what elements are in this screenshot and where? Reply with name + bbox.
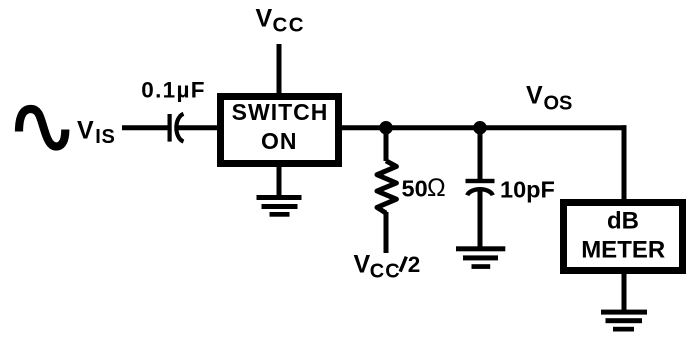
value label 50Ω: [402, 174, 446, 202]
wire: node to capacitor C2: [478, 130, 483, 180]
svg-text:V: V: [526, 82, 543, 110]
wire: capacitor C2 to ground: [478, 190, 483, 247]
power label VCC: [256, 5, 306, 37]
ground (capacitor C2): [456, 246, 505, 269]
AC source (sine symbol): [19, 109, 65, 147]
svg-text:dB: dB: [607, 208, 639, 235]
svg-text:2: 2: [408, 252, 421, 277]
wire: VCC stub: [277, 44, 282, 96]
svg-text:ON: ON: [261, 128, 298, 154]
node junction (capacitor tap): [473, 121, 487, 135]
dB meter block: [564, 203, 683, 271]
svg-text:CC: CC: [370, 261, 401, 283]
node label VIS: [77, 117, 116, 149]
node junction (resistor tap): [379, 121, 393, 135]
wire: main output net from switch to dB meter: [342, 125, 627, 202]
wire: resistor R1 to VCC/2: [384, 212, 389, 253]
wire: dB meter to ground: [622, 270, 627, 312]
svg-text:Ω: Ω: [427, 174, 446, 202]
capacitor C2: [466, 179, 495, 196]
wire: node to resistor R1: [384, 130, 389, 161]
svg-text:50: 50: [402, 175, 428, 201]
svg-text:CC: CC: [273, 14, 306, 37]
ground (switch): [257, 195, 302, 217]
wire: switch to ground: [277, 163, 282, 198]
svg-text:0.1µF: 0.1µF: [141, 78, 206, 103]
wire: capacitor C1 to switch block: [177, 125, 220, 130]
svg-text:OS: OS: [544, 93, 573, 115]
svg-text:SWITCH: SWITCH: [232, 99, 329, 125]
net label VCC/2: [354, 250, 421, 282]
capacitor C1: [168, 114, 184, 142]
node label VOS: [526, 82, 572, 115]
resistor R1 (zigzag): [377, 161, 396, 213]
wire: source to capacitor C1: [122, 125, 168, 130]
ground (dB meter): [601, 310, 647, 332]
svg-text:V: V: [77, 117, 94, 145]
svg-text:METER: METER: [581, 236, 665, 263]
svg-text:V: V: [256, 5, 273, 33]
svg-text:IS: IS: [95, 126, 115, 148]
switch block U1: [221, 97, 339, 164]
svg-text:10pF: 10pF: [500, 177, 555, 203]
svg-text:V: V: [354, 250, 371, 278]
